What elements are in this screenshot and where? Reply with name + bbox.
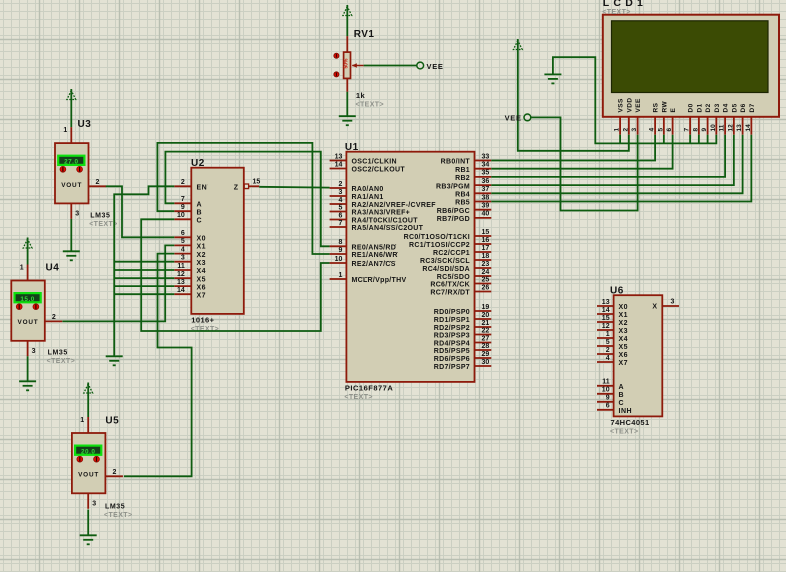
svg-text:RD5/PSP5: RD5/PSP5 xyxy=(434,348,470,355)
wire U2 C to U1 RE2 xyxy=(141,219,329,331)
svg-text:13: 13 xyxy=(177,279,185,286)
analog multiplexer U2 body xyxy=(191,168,244,314)
svg-text:VOUT: VOUT xyxy=(61,182,82,189)
svg-text:17: 17 xyxy=(482,245,490,252)
svg-text:X3: X3 xyxy=(619,328,629,335)
ground bus branch to U2 X3 xyxy=(114,261,174,263)
U1 pin 1 (MCLR/Vpp/THV) xyxy=(330,272,407,284)
svg-text:INH: INH xyxy=(619,408,633,415)
svg-text:U2: U2 xyxy=(191,158,205,169)
svg-text:<TEXT>: <TEXT> xyxy=(356,102,384,109)
U1 pin 7 (RA5/AN4/SS/C2OUT) xyxy=(330,220,424,232)
wire U4 pin2 to U2 X1 xyxy=(62,245,174,321)
microcontroller U1 body xyxy=(346,152,474,382)
potentiometer RV1 body xyxy=(344,52,351,78)
wire U1 RB0 to LCD RS xyxy=(491,135,655,161)
svg-text:33: 33 xyxy=(482,153,490,160)
svg-text:Z: Z xyxy=(234,185,239,192)
wire U2 B to U1 RE1 xyxy=(157,143,329,254)
svg-text:36: 36 xyxy=(482,178,490,185)
U1 pin 5 (RA3/AN3/VREF+) xyxy=(330,204,410,216)
svg-text:18: 18 xyxy=(482,253,490,260)
svg-text:50%: 50% xyxy=(344,58,350,69)
svg-text:6: 6 xyxy=(606,403,610,410)
U1 pin 35 (RB2) xyxy=(455,170,491,182)
svg-text:X7: X7 xyxy=(197,292,207,299)
svg-text:A: A xyxy=(619,384,625,391)
svg-text:LM35: LM35 xyxy=(48,350,68,357)
U2 pin 4 (X2) xyxy=(174,246,206,258)
svg-text:X6: X6 xyxy=(197,284,207,291)
U4 adjust buttons xyxy=(16,304,38,310)
U5 pin 2 stub xyxy=(105,475,123,477)
U3 adjust buttons xyxy=(60,166,83,172)
U1 pin 6 (RA4/T0CKI/C1OUT) xyxy=(330,212,419,224)
svg-text:15: 15 xyxy=(253,179,261,186)
svg-text:21: 21 xyxy=(482,320,490,327)
U2 pin 12 (X5) xyxy=(174,271,206,283)
ground below U5 xyxy=(80,535,97,544)
U4 pin3 wire to ground xyxy=(27,356,29,381)
U3 pin3 wire to ground xyxy=(70,219,72,251)
svg-text:28: 28 xyxy=(482,343,490,350)
svg-text:RC3/SCK/SCL: RC3/SCK/SCL xyxy=(420,258,470,265)
wire U1 RB4 to LCD D6 xyxy=(491,135,742,194)
svg-text:X5: X5 xyxy=(197,276,207,283)
svg-text:14: 14 xyxy=(335,161,343,168)
svg-text:5: 5 xyxy=(657,128,664,132)
svg-text:X0: X0 xyxy=(197,236,207,243)
svg-text:U6: U6 xyxy=(610,286,624,297)
RV1 top pin stub xyxy=(346,36,348,52)
svg-text:3: 3 xyxy=(181,255,185,262)
U5 pin3 wire to ground xyxy=(87,510,89,536)
U4 display reading 15.0 xyxy=(15,293,41,303)
svg-text:1: 1 xyxy=(80,417,84,424)
svg-text:10: 10 xyxy=(710,124,717,132)
svg-text:LM35: LM35 xyxy=(105,504,125,511)
LCD1 pin 2 (VDD) xyxy=(622,98,633,135)
svg-text:RA3/AN3/VREF+: RA3/AN3/VREF+ xyxy=(352,210,411,217)
RV1 bottom pin stub xyxy=(346,78,348,91)
svg-text:<TEXT>: <TEXT> xyxy=(191,326,219,333)
svg-text:VDD: VDD xyxy=(626,98,633,113)
svg-text:14: 14 xyxy=(745,124,752,132)
U2 pin 14 (X7) xyxy=(174,287,206,299)
U6 pin 1 (X4) xyxy=(597,331,628,343)
svg-text:2: 2 xyxy=(112,469,116,476)
svg-text:D7: D7 xyxy=(749,103,756,112)
LCD1 pin 5 (RW) xyxy=(657,101,668,135)
svg-text:U5: U5 xyxy=(105,416,119,427)
svg-text:VSS: VSS xyxy=(618,98,625,112)
svg-text:X3: X3 xyxy=(197,260,207,267)
U1 pin 18 (RC3/SCK/SCL) xyxy=(420,253,491,265)
svg-text:6: 6 xyxy=(666,128,673,132)
svg-text:X2: X2 xyxy=(619,320,629,327)
svg-text:12: 12 xyxy=(727,124,734,132)
svg-text:22: 22 xyxy=(482,327,490,334)
ground bus branch to LCD RW pin5 xyxy=(663,135,665,144)
svg-text:30: 30 xyxy=(482,359,490,366)
ground near LCD xyxy=(544,74,561,83)
svg-text:U3: U3 xyxy=(78,119,92,130)
U2 pin 2 (EN) xyxy=(174,179,207,191)
svg-text:1: 1 xyxy=(20,265,24,272)
U3 pin 2 stub xyxy=(89,185,107,187)
svg-text:C: C xyxy=(619,400,625,407)
svg-text:3: 3 xyxy=(92,500,96,507)
svg-text:RA0/AN0: RA0/AN0 xyxy=(352,186,384,193)
svg-text:A: A xyxy=(197,202,203,209)
U1 pin 26 (RC7/RX/DT) xyxy=(430,284,491,296)
U1 pin 19 (RD0/PSP0) xyxy=(434,304,492,316)
LCD1 pin 6 (E) xyxy=(666,108,677,135)
svg-text:RA2/AN2/VREF-/CVREF: RA2/AN2/VREF-/CVREF xyxy=(352,202,437,209)
U4 pin 3 stub xyxy=(27,341,29,357)
svg-text:X: X xyxy=(652,304,657,311)
svg-text:LM35: LM35 xyxy=(90,213,110,220)
VEE terminal near LCD xyxy=(524,114,531,121)
svg-text:8: 8 xyxy=(338,239,342,246)
U1 pin 30 (RD7/PSP7) xyxy=(434,359,492,371)
svg-text:1: 1 xyxy=(63,127,67,134)
svg-text:9: 9 xyxy=(181,204,185,211)
svg-text:29: 29 xyxy=(482,351,490,358)
svg-text:PIC16F877A: PIC16F877A xyxy=(345,384,393,393)
svg-text:X7: X7 xyxy=(619,360,629,367)
svg-text:D2: D2 xyxy=(705,103,712,112)
U2 pin 15 (Z output) with bubble xyxy=(234,179,261,192)
U1 pin 24 (RC5/SDO) xyxy=(437,269,492,281)
svg-text:RC5/SDO: RC5/SDO xyxy=(437,274,470,281)
svg-text:10: 10 xyxy=(335,256,343,263)
U2 pin 5 (X1) xyxy=(174,238,206,250)
U2 pin 7 (A) xyxy=(174,196,202,208)
U6 pin 5 (X5) xyxy=(597,339,628,351)
ground bus branch to U2 X6 xyxy=(114,285,174,287)
svg-text:RC7/RX/DT: RC7/RX/DT xyxy=(430,290,470,297)
LCD1 pin 10 (D3) xyxy=(710,103,721,134)
svg-text:RD2/PSP2: RD2/PSP2 xyxy=(434,325,470,332)
U1 pin 36 (RB3/PGM) xyxy=(436,178,491,190)
svg-text:9: 9 xyxy=(338,247,342,254)
svg-text:3: 3 xyxy=(671,298,675,305)
svg-text:EN: EN xyxy=(197,185,208,192)
svg-text:9: 9 xyxy=(701,128,708,132)
U1 pin 34 (RB1) xyxy=(455,162,491,174)
svg-text:X1: X1 xyxy=(619,312,629,319)
svg-text:X0: X0 xyxy=(619,304,629,311)
svg-text:11: 11 xyxy=(177,263,185,270)
svg-text:VEE: VEE xyxy=(427,62,444,71)
svg-text:D5: D5 xyxy=(731,103,738,112)
svg-text:D1: D1 xyxy=(696,103,703,112)
svg-text:1016+: 1016+ xyxy=(191,315,214,324)
svg-text:U1: U1 xyxy=(345,142,359,153)
U2 pin 3 (X3) xyxy=(174,255,206,267)
svg-text:10: 10 xyxy=(602,387,610,394)
power terminal above U5 xyxy=(84,383,93,396)
ground bus branch to LCD D1 pin8 xyxy=(698,135,700,144)
U5 pin 1 stub xyxy=(87,417,89,433)
ground for U2 input bus xyxy=(106,356,123,365)
svg-text:14: 14 xyxy=(177,287,185,294)
wire U1 RB5 to LCD D7 xyxy=(491,135,751,202)
U5 pin1 wire to power xyxy=(87,395,89,417)
svg-text:<TEXT>: <TEXT> xyxy=(610,428,638,435)
svg-text:X4: X4 xyxy=(197,268,207,275)
U3 pin1 wire to power xyxy=(70,102,72,127)
RV1 wiper arrow xyxy=(352,63,364,67)
svg-text:RD0/PSP0: RD0/PSP0 xyxy=(434,309,470,316)
svg-text:3: 3 xyxy=(631,128,638,132)
ground bus branch to U2 X7 xyxy=(114,293,174,295)
LCD1 pin 4 (RS) xyxy=(649,102,660,134)
U2 pin 11 (X4) xyxy=(174,263,206,275)
analog multiplexer U6 body xyxy=(614,295,663,416)
svg-text:RD1/PSP1: RD1/PSP1 xyxy=(434,317,470,324)
svg-text:RE0/AN5/RD: RE0/AN5/RD xyxy=(352,245,397,252)
svg-text:C: C xyxy=(197,218,203,225)
wire U5 pin2 to U2 X2 xyxy=(124,254,192,477)
svg-text:E: E xyxy=(670,108,677,113)
ground bus branch to U2 X4 xyxy=(114,269,174,271)
U6 pin 12 (X3) xyxy=(597,323,628,335)
svg-text:RA1/AN1: RA1/AN1 xyxy=(352,194,384,201)
U4 pin1 wire to power xyxy=(27,250,29,265)
U2 pin 10 (C) xyxy=(174,212,202,224)
svg-text:OSC2/CLKOUT: OSC2/CLKOUT xyxy=(352,167,406,174)
svg-text:RD3/PSP3: RD3/PSP3 xyxy=(434,333,470,340)
svg-text:D4: D4 xyxy=(723,103,730,112)
svg-text:5: 5 xyxy=(606,339,610,346)
svg-text:34: 34 xyxy=(482,162,490,169)
svg-text:24: 24 xyxy=(482,269,490,276)
svg-text:RC2/CCP1: RC2/CCP1 xyxy=(433,250,470,257)
svg-text:2: 2 xyxy=(96,179,100,186)
U2 pin 6 (X0) xyxy=(174,230,206,242)
U6 pin 4 (X7) xyxy=(597,355,628,367)
svg-text:38: 38 xyxy=(482,194,490,201)
U6 pin 14 (X1) xyxy=(597,307,628,319)
svg-text:5: 5 xyxy=(338,204,342,211)
svg-text:LCD1: LCD1 xyxy=(603,0,647,9)
svg-text:13: 13 xyxy=(736,124,743,132)
U1 pin 15 (RC0/T1OSO/T1CKI) xyxy=(404,229,492,241)
U1 pin 14 (OSC2/CLKOUT) xyxy=(330,161,406,173)
svg-text:2: 2 xyxy=(181,179,185,186)
svg-text:13: 13 xyxy=(335,153,343,160)
svg-text:RD6/PSP6: RD6/PSP6 xyxy=(434,356,470,363)
temperature sensor U3 (LM35) body xyxy=(55,143,89,203)
LCD1 pin 11 (D4) xyxy=(719,103,730,134)
svg-text:7: 7 xyxy=(181,196,185,203)
svg-text:26: 26 xyxy=(482,284,490,291)
svg-text:RW: RW xyxy=(661,101,668,113)
svg-text:10: 10 xyxy=(177,212,185,219)
U1 pin 39 (RB6/PGC) xyxy=(437,203,492,215)
U6 pin 11 (A) xyxy=(597,379,624,391)
svg-text:RB4: RB4 xyxy=(455,192,470,199)
svg-text:35: 35 xyxy=(482,170,490,177)
U1 pin 3 (RA1/AN1) xyxy=(330,189,384,201)
power terminal near LCD xyxy=(513,39,522,52)
U3 display reading 27.0 xyxy=(58,156,84,166)
ground below RV1 xyxy=(339,116,356,125)
U2 pin 13 (X6) xyxy=(174,279,206,291)
ground below U3 xyxy=(63,251,80,260)
svg-text:D0: D0 xyxy=(688,103,695,112)
svg-text:11: 11 xyxy=(602,379,610,386)
svg-text:1: 1 xyxy=(614,128,621,132)
svg-text:X1: X1 xyxy=(197,244,207,251)
RV1 bottom wire to ground xyxy=(346,92,348,116)
svg-text:15: 15 xyxy=(602,315,610,322)
wire power to LCD VDD pin2 xyxy=(518,52,629,151)
svg-text:RC1/T1OSI/CCP2: RC1/T1OSI/CCP2 xyxy=(409,242,470,249)
svg-text:X5: X5 xyxy=(619,344,629,351)
LCD1 pin 9 (D2) xyxy=(701,103,712,134)
svg-text:RE2/AN7/CS: RE2/AN7/CS xyxy=(352,261,396,268)
svg-text:14: 14 xyxy=(602,307,610,314)
svg-text:RB7/PGD: RB7/PGD xyxy=(437,216,470,223)
svg-text:2: 2 xyxy=(606,347,610,354)
U5 adjust buttons xyxy=(77,456,100,462)
svg-text:B: B xyxy=(619,392,625,399)
svg-text:RB1: RB1 xyxy=(455,167,470,174)
svg-text:3: 3 xyxy=(338,189,342,196)
LCD1 pin 3 (VEE) xyxy=(631,98,642,135)
wire U1 RB1 to LCD E xyxy=(491,135,672,169)
svg-text:RE1/AN6/WR: RE1/AN6/WR xyxy=(352,252,398,259)
svg-text:25: 25 xyxy=(482,276,490,283)
U4 pin 2 stub xyxy=(45,320,63,322)
wire U1 RB2 to LCD D4 xyxy=(491,135,725,177)
U1 pin 16 (RC1/T1OSI/CCP2) xyxy=(409,237,491,249)
svg-text:37: 37 xyxy=(482,186,490,193)
svg-text:13: 13 xyxy=(602,299,610,306)
svg-text:MCLR/Vpp/THV: MCLR/Vpp/THV xyxy=(352,277,407,284)
U1 pin 4 (RA2/AN2/VREF-/CVREF) xyxy=(330,197,437,209)
svg-text:VOUT: VOUT xyxy=(18,319,39,326)
svg-text:11: 11 xyxy=(719,124,726,131)
U6 pin 3 (X output) xyxy=(652,298,679,310)
svg-text:40: 40 xyxy=(482,211,490,218)
svg-text:2: 2 xyxy=(338,181,342,188)
wire U2 A to U1 RE0 xyxy=(165,152,329,247)
svg-text:1: 1 xyxy=(606,331,610,338)
U1 pin 21 (RD2/PSP2) xyxy=(434,320,492,332)
U3 pin 3 stub xyxy=(70,203,72,219)
svg-text:X6: X6 xyxy=(619,352,629,359)
svg-text:VEE: VEE xyxy=(505,114,522,123)
svg-text:27: 27 xyxy=(482,335,490,342)
U5 pin 3 stub xyxy=(87,493,89,509)
svg-text:RS: RS xyxy=(653,102,660,112)
LCD1 pin 13 (D6) xyxy=(736,103,747,134)
svg-text:12: 12 xyxy=(177,271,185,278)
U6 pin 10 (B) xyxy=(597,387,624,399)
ground below U4 xyxy=(19,381,36,390)
svg-text:<TEXT>: <TEXT> xyxy=(602,9,630,16)
U6 pin 9 (C) xyxy=(597,395,624,407)
U1 pin 28 (RD5/PSP5) xyxy=(434,343,492,355)
wire U2 EN to ground bus xyxy=(114,186,174,356)
ground bus branch to LCD VSS pin1 xyxy=(619,135,621,144)
svg-text:12: 12 xyxy=(602,323,610,330)
U1 pin 38 (RB5) xyxy=(455,194,491,206)
svg-text:<TEXT>: <TEXT> xyxy=(344,394,372,401)
U6 pin 2 (X6) xyxy=(597,347,628,359)
LCD screen area xyxy=(612,21,769,93)
LCD1 pin 1 (VSS) xyxy=(614,98,625,135)
RV1 top wire to power xyxy=(346,18,348,36)
svg-text:OSC1/CLKIN: OSC1/CLKIN xyxy=(352,159,397,166)
U1 pin 20 (RD1/PSP1) xyxy=(434,312,492,324)
U1 pin 25 (RC6/TX/CK) xyxy=(430,276,491,288)
U1 pin 2 (RA0/AN0) xyxy=(330,181,384,193)
ground bus branch to LCD D0 pin7 xyxy=(689,135,691,144)
wire RV1 wiper to VEE terminal xyxy=(364,65,418,67)
svg-text:15.0: 15.0 xyxy=(20,296,34,303)
U1 pin 37 (RB4) xyxy=(455,186,491,198)
svg-text:RC0/T1OSO/T1CKI: RC0/T1OSO/T1CKI xyxy=(404,234,470,241)
wire U2 Z to U1 RA0 xyxy=(259,186,329,189)
svg-text:1: 1 xyxy=(338,272,342,279)
U6 pin 13 (X0) xyxy=(597,299,628,311)
power terminal above U3 xyxy=(67,89,76,102)
U1 pin 22 (RD3/PSP3) xyxy=(434,327,492,339)
LCD1 pin 8 (D1) xyxy=(692,103,703,134)
svg-text:RB3/PGM: RB3/PGM xyxy=(436,183,470,190)
ground bus branch to LCD D2 pin9 xyxy=(707,135,709,144)
temperature sensor U4 (LM35) body xyxy=(11,281,45,341)
svg-text:U4: U4 xyxy=(46,263,60,274)
svg-text:RC6/TX/CK: RC6/TX/CK xyxy=(430,282,470,289)
U5 display reading 20.0 xyxy=(75,446,101,456)
LCD1 pin 12 (D5) xyxy=(727,103,738,134)
svg-text:D6: D6 xyxy=(740,103,747,112)
svg-text:7: 7 xyxy=(684,128,691,132)
svg-text:7: 7 xyxy=(338,220,342,227)
svg-text:VOUT: VOUT xyxy=(78,472,99,479)
U1 pin 23 (RC4/SDI/SDA) xyxy=(422,261,491,273)
U6 pin 6 (INH) xyxy=(597,403,632,415)
svg-text:X2: X2 xyxy=(197,252,207,259)
svg-text:3: 3 xyxy=(75,210,79,217)
svg-text:3: 3 xyxy=(32,348,36,355)
svg-text:4: 4 xyxy=(181,246,185,253)
svg-text:4: 4 xyxy=(338,197,342,204)
svg-text:RD4/PSP4: RD4/PSP4 xyxy=(434,341,470,348)
wire VEE terminal to LCD VEE pin3 xyxy=(530,117,637,210)
LCD display LCD1 body xyxy=(603,15,779,117)
svg-text:B: B xyxy=(197,209,203,216)
svg-text:RC4/SDI/SDA: RC4/SDI/SDA xyxy=(422,266,470,273)
svg-text:RB6/PGC: RB6/PGC xyxy=(437,208,470,215)
U3 pin 1 stub xyxy=(70,127,72,143)
svg-text:VEE: VEE xyxy=(635,98,642,112)
svg-text:X4: X4 xyxy=(619,336,629,343)
wire ground to LCD VSS and D0-D3 bus xyxy=(553,57,716,143)
svg-text:23: 23 xyxy=(482,261,490,268)
svg-text:RA4/T0CKI/C1OUT: RA4/T0CKI/C1OUT xyxy=(352,218,419,225)
svg-text:19: 19 xyxy=(482,304,490,311)
svg-text:74HC4051: 74HC4051 xyxy=(611,418,650,427)
svg-text:<TEXT>: <TEXT> xyxy=(104,512,132,519)
svg-text:16: 16 xyxy=(482,237,490,244)
